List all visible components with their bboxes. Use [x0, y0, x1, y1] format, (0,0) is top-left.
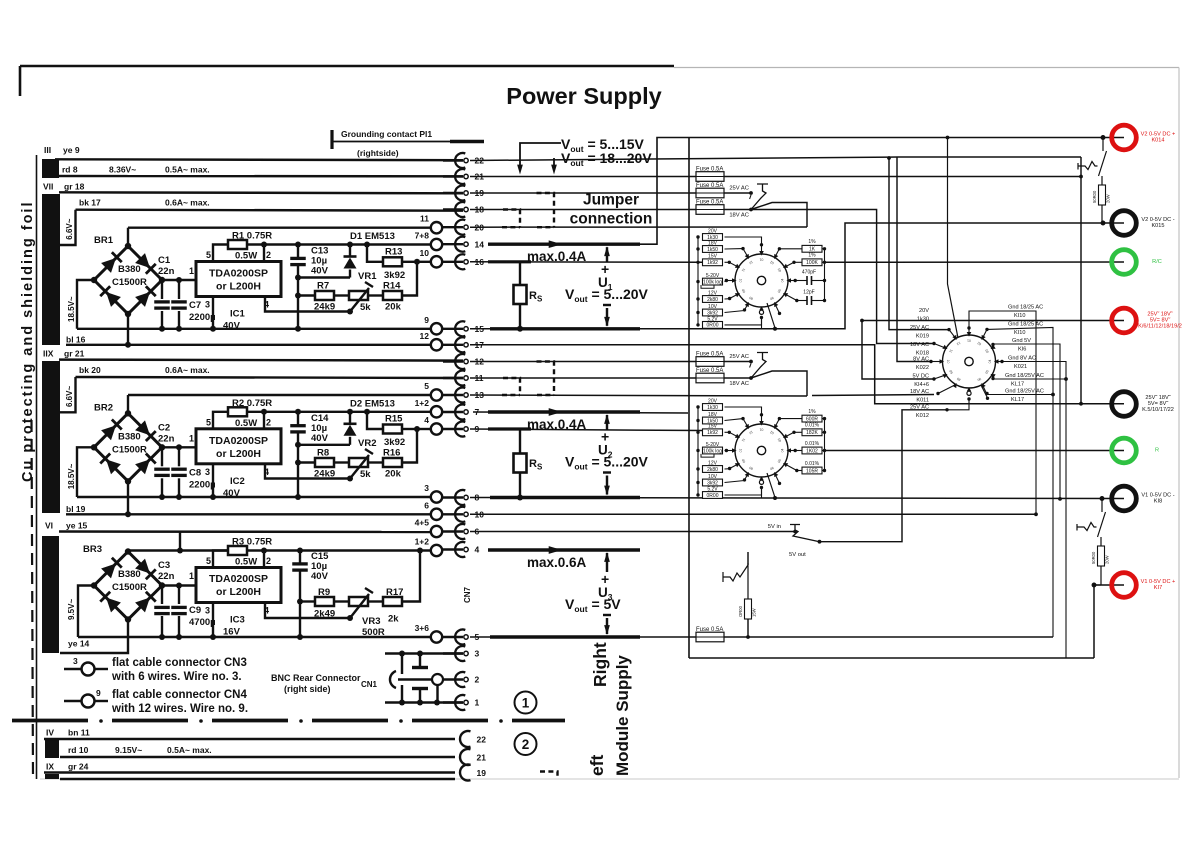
- svg-text:10: 10: [420, 248, 430, 258]
- svg-text:2: 2: [522, 737, 530, 752]
- wire bridge bottom S3 to ye14 hook: [60, 620, 128, 654]
- svg-text:2: 2: [266, 417, 271, 427]
- svg-text:24k9: 24k9: [314, 301, 335, 312]
- svg-text:1k92: 1k92: [707, 430, 718, 436]
- wire line18 to K018: [751, 210, 934, 344]
- left scan edge dash-dot line: [32, 420, 34, 779]
- connector circle wire no 6: [431, 509, 442, 520]
- resistor RS1: [519, 262, 521, 285]
- circled number 1: [515, 692, 537, 714]
- svg-text:III: III: [44, 145, 51, 155]
- wire U1+ to top rail: [640, 138, 1103, 245]
- svg-text:K011: K011: [916, 398, 929, 404]
- svg-text:3: 3: [205, 606, 210, 616]
- wire 4+5 drop S3: [179, 532, 181, 551]
- svg-text:6.6V~: 6.6V~: [65, 386, 74, 407]
- svg-text:4+5: 4+5: [415, 518, 430, 528]
- svg-text:1: 1: [522, 696, 530, 711]
- svg-text:K019: K019: [916, 334, 929, 340]
- svg-text:IV: IV: [46, 728, 54, 738]
- resistor stack left bus: [697, 407, 699, 495]
- svg-text:C1500R: C1500R: [112, 277, 147, 288]
- svg-text:2k80: 2k80: [707, 467, 718, 473]
- page top border line: [20, 65, 674, 68]
- svg-text:1+2: 1+2: [415, 398, 430, 408]
- terminal V1 0-5V DC +: [1112, 573, 1137, 598]
- thick feed segment max current U2: [488, 410, 640, 413]
- svg-text:10V: 10V: [708, 304, 718, 310]
- bottom connector pin 19: [460, 765, 470, 781]
- wire SPDT2 output to line13: [751, 371, 807, 396]
- svg-text:BR2: BR2: [94, 402, 113, 413]
- connector circle wire no 10: [431, 256, 442, 267]
- svg-text:K015: K015: [1151, 223, 1164, 229]
- svg-text:(rightside): (rightside): [357, 148, 399, 158]
- svg-text:BR3: BR3: [83, 544, 102, 555]
- svg-text:10: 10: [739, 279, 743, 283]
- svg-text:Vout = 5V: Vout = 5V: [565, 596, 621, 614]
- shield bar section IIX: [42, 361, 60, 513]
- svg-text:22: 22: [477, 735, 487, 745]
- rotary2 right wires: [969, 311, 1036, 514]
- rotary3 left wires: [725, 407, 762, 415]
- svg-text:Fuse 0.5A: Fuse 0.5A: [696, 183, 723, 189]
- resistor 100k log: [696, 449, 699, 452]
- svg-text:KI10: KI10: [1014, 330, 1026, 336]
- resistor 1k30: [696, 405, 699, 408]
- connector pin 21 CN4/CN3: [443, 175, 463, 177]
- terminal 25V˜ 18V˜: [1112, 308, 1137, 333]
- terminal R: [1112, 438, 1137, 463]
- arrow down U2: [603, 471, 611, 473]
- feedthrough capacitor lower: [412, 687, 428, 690]
- bridge rectifier BR1 B380 C1500R: [94, 246, 162, 314]
- svg-text:IIX: IIX: [43, 349, 54, 359]
- wire pin2 S3: [263, 551, 265, 568]
- svg-text:Fuse 0.5A: Fuse 0.5A: [696, 167, 723, 173]
- svg-text:R7: R7: [317, 281, 329, 292]
- arrow up U1: [606, 247, 608, 262]
- connector pin 8 CN4/CN3: [443, 496, 463, 498]
- svg-text:2k49: 2k49: [314, 609, 335, 620]
- resistor 1K02 0.01%: [794, 449, 797, 452]
- wire ground rail S1: [77, 328, 431, 330]
- svg-text:connection: connection: [570, 211, 653, 228]
- wire regulator output line S1: [247, 243, 431, 245]
- potentiometer VR3 500R S3: [334, 600, 349, 602]
- wire line22 branches to K019 K022: [889, 158, 949, 330]
- wire pin3 S2: [212, 464, 214, 497]
- svg-text:0.5W: 0.5W: [235, 251, 257, 262]
- svg-text:R2 0.75R: R2 0.75R: [232, 398, 272, 409]
- svg-text:12: 12: [420, 331, 430, 341]
- resistor R17 2k S3: [368, 600, 383, 602]
- svg-text:Jumper: Jumper: [583, 192, 639, 209]
- resistor 600R 1%: [778, 417, 781, 420]
- arrow up U2: [606, 415, 608, 430]
- svg-text:18V AC: 18V AC: [729, 213, 749, 219]
- svg-text:1: 1: [189, 571, 194, 581]
- svg-text:5k: 5k: [360, 469, 371, 480]
- svg-text:105R: 105R: [806, 468, 818, 474]
- wire regulator output line S2: [247, 411, 431, 413]
- svg-text:0.5W: 0.5W: [235, 557, 257, 568]
- connector circle wire no 12: [431, 339, 442, 350]
- svg-text:C2: C2: [158, 422, 170, 433]
- svg-text:0.5W: 0.5W: [235, 418, 257, 429]
- svg-text:BR1: BR1: [94, 235, 114, 246]
- rotary1 0R00 to bottom contact: [725, 318, 762, 325]
- shield bar section IV: [45, 740, 59, 758]
- wire 100K row to R/C terminal: [825, 261, 1125, 263]
- resistor R15 3k92 S2: [367, 412, 383, 429]
- svg-text:0.01%: 0.01%: [805, 461, 820, 467]
- svg-text:D2 EM513: D2 EM513: [350, 398, 395, 409]
- svg-text:25V AC: 25V AC: [910, 325, 929, 331]
- svg-text:600R: 600R: [806, 416, 818, 422]
- svg-text:Gnd 18/25 AC: Gnd 18/25 AC: [1008, 322, 1043, 328]
- svg-text:B380: B380: [118, 569, 141, 580]
- rotary1 right stack: [824, 249, 826, 301]
- svg-text:18V: 18V: [708, 240, 718, 246]
- svg-text:gr 18: gr 18: [64, 181, 85, 191]
- svg-text:gr 21: gr 21: [64, 349, 85, 359]
- V2 bleeder switch: [1078, 162, 1098, 170]
- wire line11 after fuse to 18VAC contact 2: [724, 377, 751, 379]
- svg-text:2: 2: [475, 675, 480, 685]
- wire SPDT1 output to line20: [751, 203, 807, 228]
- svg-text:50R00: 50R00: [1091, 551, 1096, 564]
- svg-text:50R00: 50R00: [1092, 190, 1097, 203]
- svg-text:9.15V~: 9.15V~: [115, 745, 142, 755]
- svg-text:K014: K014: [1151, 138, 1164, 144]
- thick return segment U1: [490, 327, 640, 330]
- svg-text:Gnd 18/25V AC: Gnd 18/25V AC: [1005, 389, 1044, 395]
- svg-text:R14: R14: [383, 281, 401, 292]
- svg-text:1: 1: [189, 433, 194, 443]
- resistor 100K 1%: [792, 261, 795, 264]
- connector pin 14 CN4/CN3: [443, 243, 463, 245]
- rotary1 left wires: [725, 237, 762, 245]
- connector pin 7 CN4/CN3: [443, 411, 463, 413]
- svg-text:1k50: 1k50: [707, 247, 718, 253]
- page bottom border: [40, 778, 1179, 780]
- svg-text:20V: 20V: [708, 398, 718, 404]
- svg-text:Grounding contact Pl1: Grounding contact Pl1: [341, 129, 432, 139]
- jumper dashed links S2: [502, 378, 520, 395]
- svg-text:R/C: R/C: [1152, 259, 1162, 265]
- resistor 182K 0.01%: [792, 431, 795, 434]
- svg-text:04: 04: [988, 360, 992, 364]
- resistor R9 2k49 S3: [300, 600, 315, 602]
- svg-text:bl 16: bl 16: [66, 334, 86, 344]
- feedthrough capacitor upper: [419, 654, 421, 667]
- potentiometer VR1 5k S1: [334, 294, 349, 296]
- rotary switch SW1: [735, 254, 788, 307]
- connector pin 1 CN4/CN3: [443, 701, 463, 703]
- terminal V2 0-5V DC +: [1112, 125, 1137, 150]
- svg-text:4: 4: [424, 415, 429, 425]
- connector pin 10 CN4/CN3: [443, 513, 463, 515]
- shield bar section IX partial: [45, 774, 59, 779]
- wire rd 8: [59, 175, 463, 178]
- svg-text:VI: VI: [45, 521, 53, 531]
- svg-text:10V: 10V: [708, 474, 718, 480]
- svg-text:Fuse 0.5A: Fuse 0.5A: [696, 368, 723, 374]
- svg-text:20k: 20k: [385, 469, 402, 480]
- svg-text:3k92: 3k92: [384, 270, 405, 281]
- svg-text:5.2V: 5.2V: [707, 486, 718, 492]
- wire bk header S1: [76, 210, 464, 211]
- svg-text:Right: Right: [590, 642, 610, 687]
- shield bar rd8 section: [42, 159, 59, 178]
- svg-text:3: 3: [205, 300, 210, 310]
- bottom connector pin 22: [460, 731, 470, 747]
- svg-text:22n: 22n: [158, 433, 175, 444]
- wire ye 9: [55, 158, 463, 161]
- svg-text:5: 5: [424, 381, 429, 391]
- svg-text:5V out: 5V out: [789, 552, 806, 558]
- svg-text:25V˜ 18V˜: 25V˜ 18V˜: [1145, 395, 1170, 401]
- svg-text:or L200H: or L200H: [216, 586, 261, 598]
- wire pin3 S1: [212, 297, 214, 329]
- svg-text:5V= 8V˜: 5V= 8V˜: [1148, 401, 1169, 407]
- svg-text:8V AC: 8V AC: [913, 357, 929, 363]
- svg-text:R16: R16: [383, 448, 400, 459]
- rotary3 0R00 to bottom contact: [725, 488, 762, 496]
- wire bridge to pin1 S3: [162, 584, 196, 586]
- wire pin5 S1: [213, 245, 228, 262]
- connector pin 17 CN4/CN3: [443, 344, 463, 346]
- resistor 100k log: [696, 280, 699, 283]
- svg-text:40V: 40V: [223, 321, 241, 332]
- svg-text:KI6: KI6: [1018, 347, 1026, 353]
- resistor 0R00: [696, 493, 699, 496]
- svg-text:TDA0200SP: TDA0200SP: [209, 435, 268, 447]
- svg-text:KI8: KI8: [1154, 499, 1162, 505]
- svg-text:R15: R15: [385, 414, 403, 425]
- svg-text:Gnd 18/25V AC: Gnd 18/25V AC: [1005, 373, 1044, 379]
- svg-text:5-20V: 5-20V: [706, 442, 720, 448]
- svg-text:flat cable connector CN4: flat cable connector CN4: [112, 689, 247, 701]
- svg-text:25V AC: 25V AC: [729, 186, 749, 192]
- rotary2 wiper to top left: [948, 138, 959, 339]
- svg-text:25V˜ 18V˜: 25V˜ 18V˜: [1147, 311, 1172, 317]
- svg-text:or L200H: or L200H: [216, 281, 261, 293]
- svg-text:C7: C7: [189, 300, 201, 311]
- svg-text:20V: 20V: [708, 228, 718, 234]
- svg-text:Module Supply: Module Supply: [613, 655, 632, 776]
- svg-text:9.5V~: 9.5V~: [67, 599, 76, 620]
- svg-text:470pF: 470pF: [802, 270, 816, 276]
- svg-text:20k: 20k: [385, 302, 402, 313]
- resistor R2 0.75R S2: [228, 407, 247, 416]
- svg-text:12V: 12V: [708, 460, 718, 466]
- thick stub line 9: [488, 427, 531, 430]
- svg-text:0.5A~ max.: 0.5A~ max.: [167, 745, 212, 755]
- resistor R1 0.75R S1: [228, 240, 247, 249]
- capacitor C2 22n S2: [161, 447, 163, 497]
- 5V in/out switch: [790, 525, 820, 542]
- connector circle wire no 7+8: [431, 239, 442, 250]
- svg-text:1K02: 1K02: [806, 448, 818, 454]
- wire 9.5V bracket S3: [78, 586, 94, 638]
- jumper arrows to line 21: [520, 143, 561, 168]
- svg-text:4700µ: 4700µ: [189, 617, 216, 628]
- svg-text:2k80: 2k80: [707, 297, 718, 303]
- svg-text:19: 19: [477, 768, 487, 778]
- svg-text:182K: 182K: [806, 430, 818, 436]
- wire into V2+ terminal: [1103, 137, 1124, 139]
- svg-text:IC2: IC2: [230, 476, 245, 487]
- rotary2 right tick stubs: [982, 329, 987, 338]
- terminal R/C: [1112, 250, 1137, 275]
- resistor 1K 1%: [778, 247, 781, 250]
- svg-text:CN1: CN1: [361, 680, 378, 689]
- svg-text:ye 9: ye 9: [63, 145, 80, 155]
- inner conductor circle: [432, 674, 443, 685]
- diode D1 EM513 S1: [349, 245, 351, 257]
- svg-text:Gnd 8V AC: Gnd 8V AC: [1008, 356, 1036, 362]
- wire K011 feed: [812, 395, 934, 396]
- svg-text:IC3: IC3: [230, 615, 245, 626]
- svg-text:1%: 1%: [808, 239, 816, 245]
- thick return segment U2: [490, 496, 640, 499]
- svg-text:Cu protecting and shielding fo: Cu protecting and shielding foil: [20, 201, 36, 483]
- svg-text:KI7: KI7: [1154, 585, 1162, 591]
- svg-text:0.6A~ max.: 0.6A~ max.: [165, 198, 210, 208]
- svg-text:3: 3: [205, 467, 210, 477]
- svg-text:0R00: 0R00: [707, 493, 719, 499]
- wire 5V out to K012: [820, 410, 948, 542]
- thick return segment U3: [490, 635, 640, 638]
- svg-text:01: 01: [760, 258, 764, 262]
- connector pin 9 CN4/CN3: [443, 428, 463, 430]
- wire regulator line S3: [127, 551, 129, 552]
- svg-text:OR00: OR00: [738, 605, 743, 617]
- svg-text:25V AC: 25V AC: [729, 354, 749, 360]
- svg-text:4: 4: [475, 545, 480, 555]
- svg-text:5V DC: 5V DC: [913, 374, 929, 380]
- svg-text:0.5A~ max.: 0.5A~ max.: [165, 165, 210, 175]
- regulator IC IC1 S1: [196, 262, 281, 297]
- wire 1K02 row to R terminal: [825, 450, 1125, 452]
- legend flat cable connector CN4: [64, 700, 81, 702]
- wire bridge top to line S2: [127, 395, 129, 413]
- svg-text:5: 5: [206, 556, 211, 566]
- rotary switch SW2: [943, 335, 996, 388]
- regulator IC3 TDA0200SP S3: [196, 568, 281, 603]
- svg-text:with 12 wires. Wire no. 9.: with 12 wires. Wire no. 9.: [111, 703, 248, 715]
- svg-text:K/6/11/12/18/19/2: K/6/11/12/18/19/2: [1138, 324, 1182, 330]
- resistor 1k92: [696, 261, 699, 264]
- svg-text:3: 3: [73, 656, 78, 666]
- svg-text:40V: 40V: [311, 433, 329, 444]
- svg-text:K021: K021: [1014, 364, 1027, 370]
- svg-text:0.01%: 0.01%: [805, 423, 820, 429]
- svg-text:Fuse 0.5A: Fuse 0.5A: [696, 200, 723, 206]
- svg-text:18.5V~: 18.5V~: [67, 296, 76, 322]
- svg-text:5V in: 5V in: [768, 524, 781, 530]
- resistor R14 20k S1: [368, 294, 383, 296]
- svg-text:R: R: [1155, 448, 1159, 454]
- wire 18.5V bracket S1: [77, 280, 94, 329]
- wire line17 to black multi terminal: [470, 345, 1124, 404]
- svg-text:1k30: 1k30: [707, 405, 718, 411]
- wire 6.6V bracket S1: [59, 210, 76, 245]
- svg-text:with 6 wires. Wire no. 3.: with 6 wires. Wire no. 3.: [111, 671, 242, 683]
- svg-text:7+8: 7+8: [415, 231, 430, 241]
- svg-text:B380: B380: [118, 264, 141, 275]
- wire bridge to pin1 S2: [162, 446, 196, 448]
- svg-text:12V: 12V: [708, 290, 718, 296]
- svg-text:K022: K022: [916, 365, 929, 371]
- svg-text:20V: 20V: [919, 308, 929, 314]
- svg-text:IC1: IC1: [230, 309, 246, 320]
- connector pin 16 CN4/CN3: [443, 261, 463, 263]
- resistor R8 24k9 S2: [298, 461, 315, 463]
- arrow up U3: [606, 553, 608, 572]
- wire pin4 S2: [265, 464, 350, 479]
- wire pin5 S3: [213, 551, 228, 568]
- svg-text:9: 9: [96, 688, 101, 698]
- V1 bleeder switch: [1077, 523, 1097, 531]
- svg-text:VR2: VR2: [358, 438, 376, 449]
- svg-text:3+6: 3+6: [415, 623, 430, 633]
- svg-text:or L200H: or L200H: [216, 448, 261, 460]
- svg-text:rd 10: rd 10: [68, 745, 89, 755]
- wire 6.6V bracket S2: [59, 377, 76, 412]
- svg-text:ye 14: ye 14: [68, 639, 90, 649]
- wire pin2 S2: [263, 412, 265, 429]
- resistor 1k50: [696, 247, 699, 250]
- svg-text:20W: 20W: [1106, 194, 1111, 203]
- svg-text:bn 11: bn 11: [68, 728, 90, 738]
- svg-text:5k: 5k: [360, 302, 371, 313]
- svg-text:CN7: CN7: [463, 586, 472, 603]
- svg-text:5V= 8V˜: 5V= 8V˜: [1150, 318, 1171, 324]
- wire line7 extension: [473, 412, 688, 413]
- svg-text:2: 2: [266, 556, 271, 566]
- capacitor C13 S1: [297, 245, 299, 258]
- resistor 2k80: [696, 297, 699, 300]
- wire line20 extension to AC select: [470, 226, 807, 228]
- svg-text:Fuse 0.5A: Fuse 0.5A: [696, 352, 723, 358]
- wire ye 15 header S3: [59, 530, 431, 533]
- svg-text:18V AC: 18V AC: [910, 389, 929, 395]
- wire line12 after fuse to 25VAC contact 2: [724, 361, 751, 363]
- svg-text:10: 10: [739, 449, 743, 453]
- svg-text:IX: IX: [46, 762, 54, 772]
- svg-text:500R: 500R: [362, 627, 385, 638]
- wire bl line S1: [66, 344, 431, 346]
- rotary1 wiper: [767, 303, 775, 328]
- resistor 3k92: [696, 481, 699, 484]
- wire pin4 S1: [265, 297, 350, 312]
- shield bar section VI: [42, 536, 59, 653]
- resistor R13 3k92 S1: [367, 245, 383, 262]
- connector circle wire no 1+2: [431, 545, 442, 556]
- wire line10 extension: [470, 513, 1036, 515]
- svg-text:KL17: KL17: [1011, 397, 1024, 403]
- svg-text:18V AC: 18V AC: [729, 381, 749, 387]
- fuse 0.5A: [470, 209, 696, 211]
- svg-text:0R00: 0R00: [707, 323, 719, 329]
- connector pin 18 CN4/CN3: [443, 208, 463, 210]
- svg-text:Fuse 0.5A: Fuse 0.5A: [696, 627, 723, 633]
- svg-text:C1: C1: [158, 255, 171, 266]
- svg-text:18V AC: 18V AC: [910, 342, 929, 348]
